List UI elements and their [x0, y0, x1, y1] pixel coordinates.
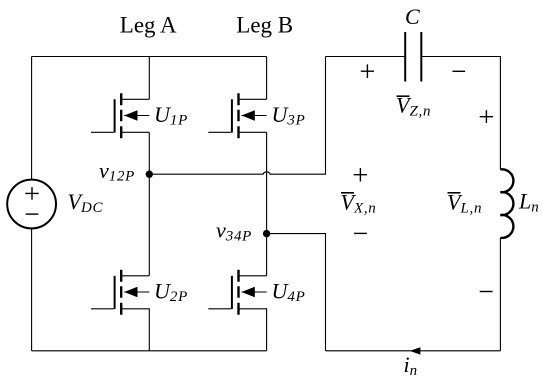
- wire leg B upper: [266, 57, 268, 100]
- source minus sign: [26, 213, 39, 215]
- wire leg B lower: [266, 308, 268, 351]
- wire leg B middle: [266, 132, 268, 275]
- svg-text:Leg B: Leg B: [236, 12, 293, 37]
- svg-text:VDC: VDC: [68, 189, 104, 216]
- wire capacitor to right side: [421, 57, 500, 170]
- svg-text:VL,n: VL,n: [447, 190, 482, 217]
- svg-text:U4P: U4P: [272, 278, 306, 305]
- wire left top (top rail to V_DC): [31, 57, 33, 180]
- svg-text:in: in: [404, 352, 418, 379]
- wire X top to capacitor: [326, 56, 406, 58]
- transistor U4P: [208, 270, 266, 315]
- svg-text:U2P: U2P: [154, 278, 188, 305]
- svg-text:VX,n: VX,n: [341, 190, 377, 217]
- current arrow i_n: [410, 347, 421, 354]
- label V_L,n: [447, 190, 482, 217]
- minus sign node X: [354, 232, 367, 234]
- node v34P dot: [263, 230, 270, 237]
- wire v34P to node X bottom: [267, 234, 326, 351]
- wire leg A upper: [148, 57, 150, 100]
- wire bridge bottom rail: [32, 350, 267, 352]
- svg-text:C: C: [405, 4, 420, 29]
- capacitor minus sign: [453, 70, 466, 72]
- plus sign inductor: [480, 110, 493, 123]
- wire leg A middle: [148, 132, 150, 275]
- svg-text:U3P: U3P: [272, 102, 306, 129]
- node v12P dot: [146, 171, 153, 178]
- svg-text:Ln: Ln: [518, 189, 539, 216]
- capacitor C plates: [405, 32, 421, 82]
- svg-text:VZ,n: VZ,n: [396, 93, 431, 120]
- label V_Z,n: [396, 93, 431, 120]
- plus sign node X: [354, 168, 367, 182]
- svg-text:v34P: v34P: [216, 218, 252, 245]
- minus sign inductor: [480, 291, 493, 293]
- wire leg A lower: [148, 308, 150, 351]
- wire inductor to bottom rail: [499, 238, 501, 351]
- transistor U3P: [208, 93, 266, 138]
- svg-text:Leg A: Leg A: [120, 12, 177, 37]
- svg-text:U1P: U1P: [154, 102, 188, 129]
- inductor L_n: [500, 169, 513, 238]
- wire top rail bridge: [32, 56, 267, 58]
- wire v12P to node X (with hop over leg B): [149, 57, 325, 175]
- wire load bottom rail: [326, 350, 501, 352]
- source V_DC circle: [7, 180, 56, 229]
- transistor U1P: [91, 93, 149, 138]
- transistor U2P: [91, 270, 149, 315]
- source plus sign: [25, 187, 38, 200]
- label V_X,n: [341, 190, 377, 217]
- svg-text:v12P: v12P: [99, 158, 135, 185]
- capacitor plus sign: [361, 64, 374, 78]
- wire left bottom (V_DC to bottom rail): [31, 228, 33, 350]
